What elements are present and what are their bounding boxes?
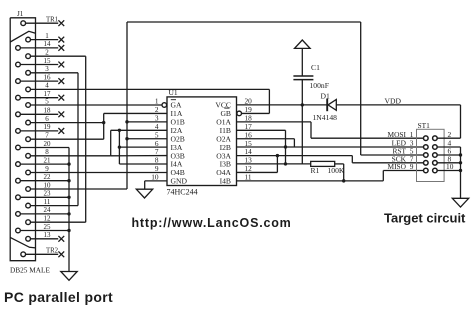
svg-text:11: 11	[245, 172, 252, 181]
svg-text:TR2: TR2	[46, 248, 59, 255]
svg-text:2: 2	[448, 130, 452, 139]
svg-text:8: 8	[45, 148, 49, 156]
svg-text:5: 5	[45, 97, 49, 105]
svg-text:25: 25	[44, 223, 52, 231]
svg-text:16: 16	[44, 73, 52, 81]
svg-text:VDD: VDD	[385, 96, 402, 105]
svg-text:3: 3	[45, 65, 49, 73]
svg-text:6: 6	[45, 115, 49, 123]
svg-text:100K: 100K	[328, 166, 345, 175]
svg-text:I4B: I4B	[220, 177, 231, 186]
svg-text:14: 14	[44, 40, 52, 48]
svg-text:74HC244: 74HC244	[167, 188, 198, 197]
svg-text:19: 19	[44, 123, 52, 131]
svg-text:22: 22	[44, 173, 52, 181]
svg-text:4: 4	[45, 82, 49, 90]
svg-text:10: 10	[151, 172, 159, 181]
svg-text:J1: J1	[17, 10, 24, 18]
svg-text:Target circuit: Target circuit	[384, 211, 466, 226]
svg-text:C1: C1	[311, 63, 320, 72]
svg-text:7: 7	[45, 132, 49, 140]
svg-text:10: 10	[446, 162, 454, 171]
svg-text:GND: GND	[171, 177, 188, 186]
svg-text:11: 11	[44, 198, 51, 206]
svg-text:DB25 MALE: DB25 MALE	[10, 266, 50, 275]
svg-text:23: 23	[44, 190, 52, 198]
svg-text:24: 24	[44, 206, 52, 214]
svg-text:MISO: MISO	[388, 162, 407, 171]
svg-text:12: 12	[44, 215, 52, 223]
svg-text:1: 1	[45, 32, 49, 40]
svg-text:9: 9	[410, 162, 414, 171]
svg-text:http://www.LancOS.com: http://www.LancOS.com	[132, 216, 292, 230]
svg-text:100nF: 100nF	[310, 81, 329, 90]
svg-text:10: 10	[44, 181, 52, 189]
svg-text:15: 15	[44, 57, 52, 65]
svg-text:1N4148: 1N4148	[313, 113, 338, 122]
svg-text:20: 20	[44, 140, 52, 148]
svg-text:13: 13	[44, 231, 52, 239]
svg-text:MOSI: MOSI	[388, 130, 407, 139]
svg-text:R1: R1	[311, 166, 320, 175]
svg-text:9: 9	[45, 165, 49, 173]
svg-text:D1: D1	[321, 91, 330, 100]
svg-text:ST1: ST1	[418, 121, 431, 130]
svg-text:TR1: TR1	[46, 16, 58, 23]
svg-text:1: 1	[410, 130, 414, 139]
svg-text:U1: U1	[169, 88, 178, 97]
svg-text:21: 21	[44, 156, 52, 164]
svg-text:18: 18	[44, 107, 52, 115]
svg-text:2: 2	[45, 49, 49, 57]
svg-text:PC parallel port: PC parallel port	[4, 289, 113, 305]
